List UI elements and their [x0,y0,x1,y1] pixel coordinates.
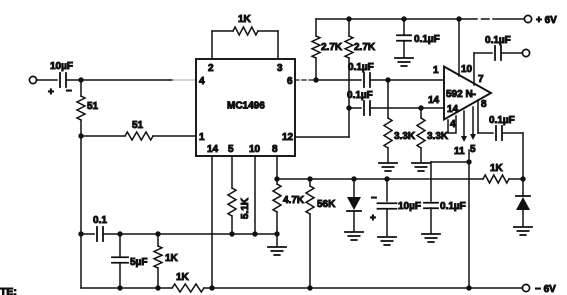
svg-text:8: 8 [481,99,487,110]
wire [370,107,444,109]
node I [418,105,423,110]
wire [66,79,173,81]
capacitor C1 10uF input coupling [48,61,73,98]
node O [384,176,389,181]
resistor R5 2.7K [345,19,376,108]
ground [378,237,396,245]
svg-text:MC1496: MC1496 [227,101,265,112]
svg-text:1: 1 [199,132,205,143]
wire pins 5 11 [468,150,470,162]
svg-text:3.3K: 3.3K [394,131,416,142]
terminal -6V [522,284,556,295]
wire pin 6 dashed [295,79,315,81]
node X [209,285,214,290]
resistor R10 56K [306,179,336,288]
capacitor C2 0.1uF supply bypass [397,19,440,57]
wire pin 2 [211,31,213,59]
svg-text:0.1µF: 0.1µF [485,35,511,46]
wire pin 12 [295,108,349,137]
svg-text:2: 2 [208,63,214,74]
svg-text:TE:: TE: [0,286,17,295]
svg-text:0.1µF: 0.1µF [489,115,515,126]
node G [346,105,351,110]
svg-text:0.1µF: 0.1µF [348,62,374,73]
node M [307,176,312,181]
wire pin 8 of U1 [276,156,278,179]
node L [274,176,279,181]
svg-text:1K: 1K [238,14,252,25]
wire [509,178,523,180]
svg-text:5µF: 5µF [130,257,147,268]
capacitor C10 5uF [112,234,147,288]
svg-text:10: 10 [249,144,261,155]
resistor R3 1K feedback [212,14,278,35]
ground [345,232,363,240]
note text [0,286,17,295]
wire [431,161,469,163]
svg-text:0.1µF: 0.1µF [347,90,373,101]
wire pin 10 [459,19,473,76]
node Q [117,231,122,236]
svg-text:5.1K: 5.1K [240,197,251,219]
svg-text:−: − [66,86,72,97]
node U [274,231,279,236]
resistor R2 51 [81,120,196,140]
wire [80,120,82,288]
resistor R12 5.1K [228,156,251,234]
resistor R13 1K [172,272,204,292]
svg-text:10: 10 [461,64,473,75]
pin 1 label [433,65,439,76]
svg-text:14: 14 [428,95,440,106]
capacitor C4 0.1uF [347,90,373,115]
node Z [466,285,471,290]
svg-text:0.1µF: 0.1µF [414,34,440,45]
svg-text:+ 6V: + 6V [536,15,557,26]
wire [349,107,361,109]
node Y [307,285,312,290]
capacitor C6 0.1uF [489,115,515,140]
wire [276,234,278,246]
resistor R1 51 [77,82,99,120]
svg-text:+: + [48,87,54,98]
svg-text:0.1: 0.1 [93,215,107,226]
svg-text:11: 11 [454,146,465,157]
ground [268,247,286,255]
ground [379,163,397,171]
node K [520,176,525,181]
wire [37,79,57,81]
node T [252,231,257,236]
wire pin 10 of U1 [254,156,256,234]
svg-text:5: 5 [470,144,476,155]
ground [412,163,430,171]
ground [395,58,413,66]
op-amp U1 MC1496 balanced modulator [196,59,295,156]
wire [474,52,492,54]
svg-text:6: 6 [287,76,293,87]
svg-text:1K: 1K [490,163,504,174]
wire [173,79,195,81]
node V [117,285,122,290]
resistor R6 3.3K [384,80,416,162]
pin 11 arrow [454,111,467,157]
wire pin 7 output [474,53,484,85]
svg-text:14: 14 [447,104,459,115]
capacitor C9 0.1 [93,215,107,241]
pin 4 stub [448,116,456,133]
svg-text:1K: 1K [165,253,179,264]
node F [313,77,318,82]
svg-text:8: 8 [272,144,278,155]
node R [155,231,160,236]
input terminal J1 [29,76,36,83]
svg-text:10µF: 10µF [398,201,421,212]
svg-text:3: 3 [277,63,283,74]
resistor R11 1K [154,234,179,288]
node D [401,16,406,21]
node P [78,231,83,236]
resistor R9 4.7K [273,179,305,234]
wire [81,233,94,235]
svg-text:4.7K: 4.7K [283,195,305,206]
node J [466,159,471,164]
wire pin 3 [277,31,279,59]
svg-text:4: 4 [450,119,456,130]
resistor R7 3.3K [417,108,449,162]
capacitor C8 0.1uF [424,162,466,233]
svg-text:10µF: 10µF [50,61,73,72]
wire [501,52,522,54]
svg-text:4: 4 [199,76,205,87]
resistor R8 1K [483,163,509,183]
op-amp U2 592 [444,67,491,120]
ground [514,227,532,235]
pin 5 arrow [470,107,476,155]
capacitor C3 0.1uF [348,62,374,87]
svg-text:2.7K: 2.7K [321,42,343,53]
node S [229,231,234,236]
capacitor C5 0.1uF output [485,35,511,60]
svg-text:−: − [371,193,377,204]
wire pin 8 [478,99,487,133]
ground [422,234,440,242]
svg-text:1: 1 [433,65,439,76]
wire [502,133,523,179]
svg-text:3.3K: 3.3K [427,131,449,142]
wire [370,79,444,81]
svg-text:5: 5 [228,144,234,155]
svg-text:− 6V: − 6V [535,284,556,295]
terminal +6V [524,15,557,26]
svg-text:7: 7 [478,74,484,85]
wire -6V rail [81,287,522,289]
svg-text:12: 12 [282,132,294,143]
pin 14 label [428,95,440,106]
svg-text:2.7K: 2.7K [354,42,376,53]
wire [468,162,470,288]
svg-text:+: + [370,213,376,224]
wire [478,132,493,134]
node E [456,16,461,21]
wire [316,79,361,81]
node B [78,133,83,138]
resistor R4 2.7K [312,19,343,80]
diode D1 [347,179,361,231]
svg-text:14: 14 [207,144,219,155]
svg-text:51: 51 [132,120,144,131]
wire bias rail [277,178,483,180]
node N [351,176,356,181]
wire +6V rail [316,18,524,20]
node W [155,285,160,290]
wire pin 14 of U1 [211,156,213,288]
node H [385,77,390,82]
svg-text:0.1µF: 0.1µF [440,201,466,212]
diode D2 [516,179,530,226]
node C [346,16,351,21]
svg-text:592 N-: 592 N- [446,89,476,100]
wire mid rail [103,233,277,235]
capacitor C7 10uF electrolytic [370,179,421,236]
svg-text:56K: 56K [317,199,336,210]
svg-text:1K: 1K [176,272,190,283]
node A [78,77,83,82]
output terminal [522,49,529,56]
svg-text:51: 51 [87,101,99,112]
